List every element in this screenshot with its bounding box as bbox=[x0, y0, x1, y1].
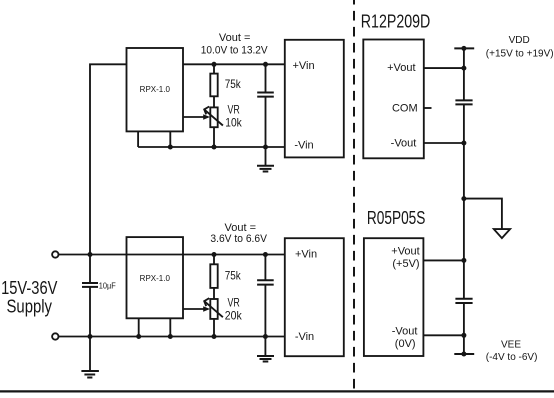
resistor R1 75k (upper) bbox=[213, 64, 215, 73]
junction dots bbox=[212, 62, 217, 67]
input terminal (bottom, -) bbox=[52, 333, 58, 339]
svg-text:+Vin: +Vin bbox=[292, 60, 314, 72]
ground (upper circuit) bbox=[265, 147, 267, 166]
svg-text:-Vout: -Vout bbox=[392, 326, 418, 338]
svg-text:75k: 75k bbox=[225, 269, 242, 283]
wire: R12 +Vout pin to VDD bus bbox=[424, 67, 464, 69]
svg-text:R12P209D: R12P209D bbox=[361, 11, 431, 31]
wire: R05 -Vout pin to bus bbox=[423, 334, 464, 336]
pin: U2 bottom-right pin bbox=[169, 318, 171, 336]
bottom frame border bbox=[0, 390, 554, 392]
svg-text:10.0V to 13.2V: 10.0V to 13.2V bbox=[201, 45, 268, 57]
svg-text:Vout =: Vout = bbox=[225, 222, 257, 234]
wire: lower bottom rail bbox=[59, 336, 285, 338]
wire: R05 +Vout pin to bus bbox=[423, 259, 464, 261]
capacitor C1 (upper output) bbox=[265, 64, 267, 92]
load box +Vin/-Vin (upper) bbox=[285, 40, 344, 158]
wire: lower top rail bbox=[59, 254, 285, 256]
terminal VEE tick bbox=[454, 353, 474, 355]
wire: right vertical bus (lower segment) bbox=[463, 303, 465, 354]
wire: branch to common arrow bbox=[464, 199, 502, 230]
svg-text:+Vout: +Vout bbox=[391, 246, 419, 258]
potentiometer VR2 diagonal adjust arrow bbox=[205, 302, 223, 318]
svg-text:(-4V to -6V): (-4V to -6V) bbox=[486, 352, 538, 363]
wire: upper output top rail bbox=[183, 63, 285, 65]
svg-text:-Vout: -Vout bbox=[391, 138, 417, 150]
wire: R12 -Vout pin to bus bbox=[424, 142, 464, 144]
svg-text:10k: 10k bbox=[225, 116, 242, 130]
potentiometer VR1 10k body bbox=[210, 107, 217, 127]
svg-text:VR: VR bbox=[228, 103, 241, 117]
svg-text:15V-36V: 15V-36V bbox=[1, 278, 57, 298]
load box +Vin/-Vin (lower) bbox=[285, 238, 344, 356]
input terminal (top, +) bbox=[52, 251, 58, 257]
resistor R2 75k (lower) bbox=[213, 255, 215, 265]
potentiometer VR1 diagonal adjust arrow bbox=[205, 110, 223, 126]
svg-text:-Vin: -Vin bbox=[294, 140, 313, 152]
svg-text:20k: 20k bbox=[225, 308, 243, 322]
svg-text:VEE: VEE bbox=[501, 340, 521, 351]
common down-arrow symbol bbox=[494, 229, 510, 238]
svg-text:Vout =: Vout = bbox=[219, 32, 251, 44]
svg-text:RPX-1.0: RPX-1.0 bbox=[140, 274, 171, 283]
svg-text:(+5V): (+5V) bbox=[392, 258, 419, 270]
capacitor C4 (VDD rail) bbox=[455, 99, 472, 101]
svg-text:RPX-1.0: RPX-1.0 bbox=[140, 85, 171, 94]
ground (input) bbox=[89, 337, 91, 371]
converter module R12P209D box bbox=[363, 40, 424, 159]
wire: upper bottom rail bbox=[138, 146, 285, 148]
svg-text:+Vin: +Vin bbox=[295, 248, 317, 260]
converter module R05P05S box bbox=[364, 238, 424, 356]
svg-text:(0V): (0V) bbox=[395, 338, 416, 350]
svg-text:Supply: Supply bbox=[7, 296, 53, 316]
svg-text:10µF: 10µF bbox=[99, 281, 116, 291]
dashed separator line bbox=[353, 0, 355, 391]
svg-text:(+15V to +19V): (+15V to +19V) bbox=[486, 49, 554, 60]
pin: U1 bottom-right pin bbox=[169, 131, 171, 147]
capacitor C5 (VEE rail) bbox=[455, 298, 472, 300]
capacitor C3 (lower output) bbox=[264, 255, 266, 281]
wire: right vertical bus (upper segment) bbox=[463, 48, 465, 100]
svg-text:COM: COM bbox=[392, 103, 418, 115]
wire: right vertical bus (middle segment) bbox=[463, 104, 465, 298]
svg-text:-Vin: -Vin bbox=[295, 331, 314, 343]
stub: R12 COM pin bbox=[424, 107, 432, 109]
ground (lower circuit) bbox=[264, 337, 266, 356]
pin: U2 bottom-left pin bbox=[138, 318, 140, 336]
capacitor C2 10uF input bbox=[89, 255, 91, 284]
svg-text:+Vout: +Vout bbox=[387, 62, 415, 74]
svg-text:3.6V to 6.6V: 3.6V to 6.6V bbox=[210, 233, 267, 245]
svg-text:75k: 75k bbox=[225, 77, 242, 91]
wiper arrow from U1 to VR1 bbox=[183, 116, 207, 118]
converter U1 RPX-1.0 (upper) bbox=[127, 48, 184, 131]
terminal VDD tick bbox=[454, 47, 474, 49]
svg-text:VDD: VDD bbox=[509, 35, 530, 46]
pin: U1 bottom-left pin bbox=[137, 131, 139, 147]
wire: left vertical bus from upper circuit down to lower top rail bbox=[90, 64, 127, 254]
wiper arrow from U2 to VR2 bbox=[183, 308, 207, 310]
converter U2 RPX-1.0 (lower) bbox=[127, 237, 184, 318]
svg-text:R05P05S: R05P05S bbox=[367, 208, 426, 228]
potentiometer VR2 20k body bbox=[210, 299, 217, 319]
